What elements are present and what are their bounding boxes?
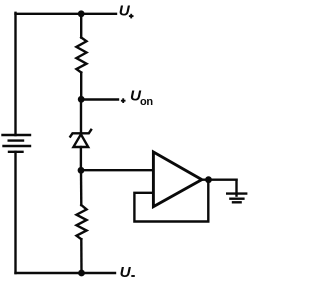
- wire bus R1 to Uon node: [80, 73, 82, 100]
- zener diode D1: [70, 100, 91, 171]
- label Uon text: [130, 88, 153, 109]
- wire bus top segment: [80, 14, 82, 38]
- label U- subscript minus: [131, 275, 135, 277]
- wire top rail: [16, 13, 117, 15]
- label U+: [119, 3, 131, 20]
- node bottom junction: [78, 270, 85, 277]
- op-amp U1: [153, 152, 201, 207]
- wire left side bottom: [14, 152, 16, 273]
- label plus Uon: [121, 98, 126, 103]
- node opamp input junction: [78, 167, 85, 174]
- wire feedback loop: [134, 180, 208, 222]
- wire bus R2 to bottom rail: [80, 239, 83, 273]
- wire output: [202, 178, 237, 180]
- label U-: [120, 264, 132, 281]
- label U+ subscript plus: [129, 14, 134, 19]
- resistor R2: [77, 205, 87, 239]
- battery B1: [3, 135, 31, 152]
- wire bus to R2: [80, 170, 83, 205]
- ground: [227, 194, 246, 203]
- svg-text:on: on: [140, 96, 153, 108]
- node Uon junction: [78, 96, 85, 103]
- wire left side top: [14, 13, 16, 135]
- svg-text:U: U: [120, 264, 132, 281]
- node output junction: [205, 176, 212, 183]
- wire opamp input top: [81, 169, 153, 171]
- wire ground stub: [235, 180, 237, 196]
- resistor R1: [76, 38, 86, 73]
- wire Uon branch: [81, 98, 118, 100]
- wire bottom rail: [16, 272, 116, 274]
- node top junction: [78, 10, 85, 17]
